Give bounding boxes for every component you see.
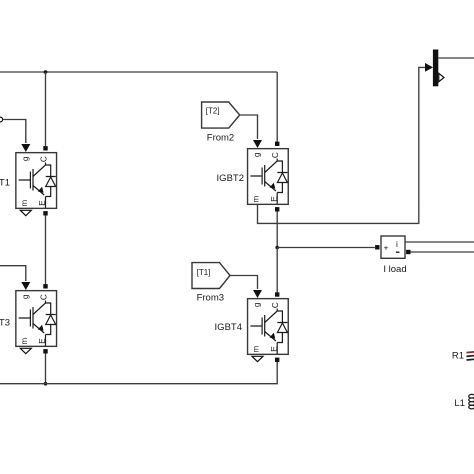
pin arrow hollow demux output 2 unconnected: [439, 73, 444, 81]
wire IGBT2 E down to load node: [276, 212, 278, 248]
svg-text:From3: From3: [197, 293, 224, 304]
transistor IGBT1: [16, 153, 57, 209]
wire load node down to IGBT4 C: [276, 248, 278, 293]
svg-text:[T2]: [T2]: [206, 106, 220, 115]
pin arrow into IGBT1 g: [21, 144, 30, 152]
pin square IGBT2 E: [275, 207, 279, 211]
wire From2 to IGBT2 g: [240, 115, 258, 139]
wire From3 to IGBT4 g: [230, 276, 258, 290]
wire bottom bus: [0, 362, 277, 384]
wire gate input to IGBT3 g: [0, 266, 26, 281]
goto-tag From2: [202, 102, 240, 143]
pin square IGBT1 C: [43, 146, 47, 150]
resistor R1 (cropped): [452, 351, 474, 362]
pin arrow into IGBT3 g: [21, 282, 30, 290]
wire IGBT1 E to IGBT3 C: [45, 216, 47, 285]
svg-text:IGBT2: IGBT2: [217, 173, 244, 184]
node top-bus junction: [44, 70, 48, 74]
pin square IGBT3 E: [43, 349, 47, 353]
pin square I load minus: [406, 250, 410, 254]
pin arrow hollow IGBT1 m unconnected: [20, 210, 31, 215]
node load junction: [275, 246, 279, 250]
transistor IGBT3: [16, 291, 57, 347]
svg-text:From2: From2: [207, 132, 234, 143]
pin arrow into IGBT4 g: [253, 290, 262, 298]
pin square I load plus: [375, 245, 379, 249]
svg-text:i: i: [396, 239, 398, 249]
pin arrow into demux: [425, 63, 433, 72]
wire top bus to IGBT2 collector: [276, 72, 278, 142]
svg-text:IGBT1: IGBT1: [0, 177, 10, 188]
svg-text:+: +: [384, 243, 389, 253]
wire demux output 1: [438, 57, 474, 59]
wire I load i output: [405, 241, 474, 243]
transistor IGBT4: [248, 299, 289, 355]
ammeter I load: [381, 236, 407, 275]
pin square IGBT4 C: [275, 292, 279, 296]
svg-text:I load: I load: [383, 264, 406, 275]
pin arrow hollow IGBT4 m unconnected: [252, 356, 263, 361]
wire top DC bus: [0, 71, 277, 73]
wire IGBT2 m to demux input: [258, 67, 426, 223]
pin square IGBT1 E: [43, 211, 47, 215]
wire top bus to IGBT1 collector: [45, 72, 47, 146]
svg-text:IGBT3: IGBT3: [0, 318, 10, 329]
svg-text:L1: L1: [454, 398, 465, 409]
inductor L1 (cropped): [454, 394, 474, 409]
wire I load minus to load (cropped): [411, 251, 474, 253]
goto-tag From3: [192, 263, 230, 304]
svg-text:[T1]: [T1]: [197, 268, 211, 277]
pin square IGBT2 C: [275, 142, 279, 146]
pin arrow hollow IGBT3 m unconnected: [20, 348, 31, 353]
node bottom-bus junction: [44, 382, 48, 386]
svg-text:IGBT4: IGBT4: [215, 322, 242, 333]
port input connection circle (cropped): [0, 117, 3, 122]
pin arrow into IGBT2 g: [253, 140, 262, 148]
wire load node to I load plus: [277, 247, 375, 249]
svg-text:R1: R1: [452, 351, 464, 362]
wire gate input to IGBT1 g: [3, 120, 26, 144]
wire IGBT3 E down to bottom bus: [45, 354, 47, 384]
pin square IGBT4 E: [275, 358, 279, 362]
demux U1: [433, 50, 438, 87]
pin square IGBT3 C: [43, 284, 47, 288]
transistor IGBT2: [248, 149, 289, 205]
